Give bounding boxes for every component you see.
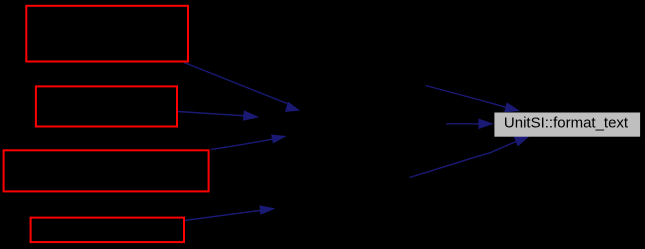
svg-text:UnitSI::format_text: UnitSI::format_text [504, 114, 629, 131]
